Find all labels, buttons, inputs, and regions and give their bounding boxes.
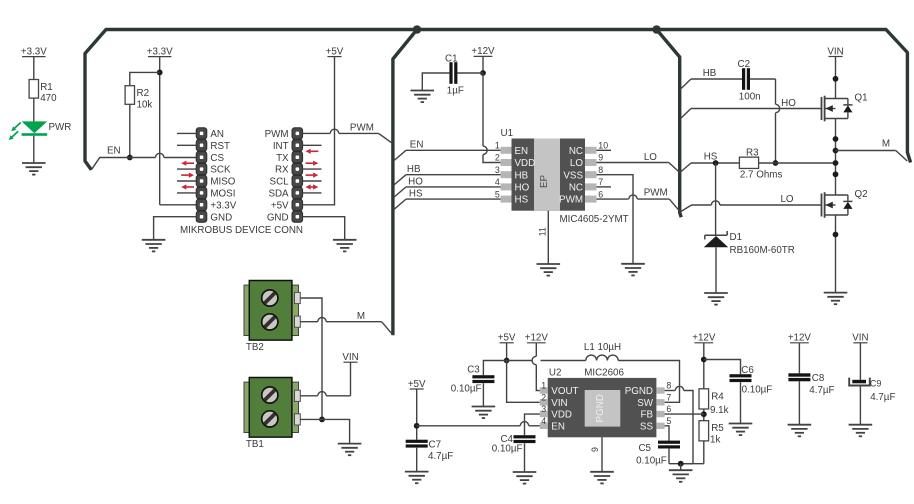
- svg-text:HB: HB: [703, 68, 717, 79]
- svg-text:LO: LO: [570, 158, 583, 169]
- svg-text:AN: AN: [210, 129, 224, 140]
- svg-text:C2: C2: [738, 59, 751, 70]
- svg-text:EN: EN: [107, 145, 121, 156]
- svg-text:D1: D1: [730, 232, 743, 243]
- svg-text:R1: R1: [40, 82, 53, 93]
- svg-text:MIKROBUS DEVICE CONN: MIKROBUS DEVICE CONN: [180, 225, 303, 236]
- svg-text:EN: EN: [515, 146, 529, 157]
- svg-text:PGND: PGND: [625, 386, 653, 397]
- svg-text:VIN: VIN: [551, 398, 567, 409]
- svg-text:PWM: PWM: [644, 188, 668, 199]
- svg-text:PWM: PWM: [265, 129, 289, 140]
- svg-text:HB: HB: [515, 170, 529, 181]
- svg-text:GND: GND: [210, 212, 232, 223]
- svg-text:RST: RST: [210, 141, 230, 152]
- svg-text:9: 9: [590, 447, 600, 452]
- svg-text:VIN: VIN: [342, 352, 358, 363]
- svg-text:C3: C3: [467, 364, 480, 375]
- svg-text:2: 2: [541, 392, 546, 402]
- svg-text:8: 8: [666, 381, 671, 391]
- svg-text:+5V: +5V: [326, 46, 344, 57]
- svg-text:RB160M-60TR: RB160M-60TR: [730, 245, 795, 256]
- svg-text:NC: NC: [569, 183, 583, 194]
- svg-text:VIN: VIN: [852, 333, 868, 344]
- svg-text:7: 7: [598, 177, 603, 187]
- svg-text:R5: R5: [711, 423, 724, 434]
- svg-text:0.10µF: 0.10µF: [451, 384, 482, 395]
- svg-text:VIN: VIN: [827, 46, 843, 57]
- svg-text:PWR: PWR: [49, 122, 72, 133]
- svg-text:Q1: Q1: [855, 93, 868, 104]
- svg-text:3: 3: [541, 404, 546, 414]
- svg-text:FB: FB: [640, 410, 653, 421]
- svg-text:INT: INT: [273, 141, 289, 152]
- svg-text:TB1: TB1: [246, 439, 264, 450]
- svg-text:LO: LO: [780, 194, 793, 205]
- svg-text:6: 6: [598, 189, 603, 199]
- svg-text:CS: CS: [210, 153, 224, 164]
- svg-text:4: 4: [495, 177, 500, 187]
- svg-text:C5: C5: [638, 443, 651, 454]
- svg-text:+12V: +12V: [471, 46, 495, 57]
- svg-text:RX: RX: [275, 165, 289, 176]
- svg-text:TB2: TB2: [246, 342, 264, 353]
- svg-text:6: 6: [666, 404, 671, 414]
- svg-text:1: 1: [541, 381, 546, 391]
- svg-text:R2: R2: [137, 88, 150, 99]
- svg-text:VOUT: VOUT: [551, 386, 578, 397]
- svg-text:EP: EP: [539, 175, 550, 189]
- svg-text:0.10µF: 0.10µF: [742, 384, 773, 395]
- svg-text:C7: C7: [429, 439, 442, 450]
- svg-text:9: 9: [598, 153, 603, 163]
- svg-text:MIC4605-2YMT: MIC4605-2YMT: [560, 214, 629, 225]
- svg-text:M: M: [357, 311, 365, 322]
- svg-text:PGND: PGND: [595, 394, 606, 422]
- svg-text:0.10µF: 0.10µF: [492, 444, 523, 455]
- svg-text:VDD: VDD: [515, 158, 536, 169]
- svg-text:EN: EN: [410, 140, 424, 151]
- svg-text:NC: NC: [569, 146, 583, 157]
- svg-text:5: 5: [666, 416, 671, 426]
- svg-text:VDD: VDD: [551, 410, 572, 421]
- svg-text:8: 8: [598, 165, 603, 175]
- svg-text:5: 5: [495, 189, 500, 199]
- svg-text:SW: SW: [637, 398, 654, 409]
- svg-text:R4: R4: [711, 391, 724, 402]
- svg-text:C8: C8: [812, 373, 825, 384]
- svg-text:4.7µF: 4.7µF: [428, 451, 453, 462]
- svg-text:2: 2: [495, 153, 500, 163]
- svg-text:C1: C1: [445, 53, 458, 64]
- svg-text:EN: EN: [551, 421, 565, 432]
- svg-text:R3: R3: [746, 147, 759, 158]
- svg-text:VSS: VSS: [563, 170, 583, 181]
- svg-text:7: 7: [666, 392, 671, 402]
- svg-text:+5V: +5V: [498, 333, 516, 344]
- svg-text:C9: C9: [870, 378, 882, 388]
- svg-text:+3.3V: +3.3V: [21, 46, 47, 57]
- svg-text:PWM: PWM: [350, 122, 374, 133]
- svg-text:+12V: +12V: [525, 333, 549, 344]
- svg-text:U1: U1: [501, 128, 514, 139]
- svg-text:100n: 100n: [739, 92, 761, 103]
- svg-text:4.7µF: 4.7µF: [870, 392, 895, 403]
- svg-text:10: 10: [598, 141, 608, 151]
- svg-text:U2: U2: [549, 368, 562, 379]
- svg-text:Q2: Q2: [855, 189, 868, 200]
- svg-text:TX: TX: [276, 153, 289, 164]
- svg-text:2.7 Ohms: 2.7 Ohms: [740, 170, 783, 181]
- svg-text:MOSI: MOSI: [210, 189, 235, 200]
- svg-text:10k: 10k: [137, 100, 153, 111]
- svg-text:+12V: +12V: [692, 333, 716, 344]
- svg-text:HO: HO: [408, 176, 423, 187]
- svg-text:HS: HS: [515, 195, 529, 206]
- svg-text:470: 470: [40, 93, 57, 104]
- svg-text:+5V: +5V: [408, 379, 426, 390]
- svg-text:9.1k: 9.1k: [710, 405, 729, 416]
- svg-text:SCK: SCK: [210, 165, 231, 176]
- svg-text:HB: HB: [407, 164, 421, 175]
- svg-text:HS: HS: [409, 189, 423, 200]
- svg-text:HO: HO: [781, 98, 796, 109]
- svg-text:PWM: PWM: [559, 195, 583, 206]
- svg-text:MISO: MISO: [210, 177, 235, 188]
- svg-text:1µF: 1µF: [447, 85, 464, 96]
- svg-text:4.7µF: 4.7µF: [809, 385, 834, 396]
- svg-text:+3.3V: +3.3V: [210, 200, 236, 211]
- svg-text:GND: GND: [267, 212, 289, 223]
- svg-text:C6: C6: [741, 365, 754, 376]
- svg-text:1: 1: [495, 141, 500, 151]
- svg-text:4: 4: [541, 416, 546, 426]
- svg-text:+5V: +5V: [271, 200, 289, 211]
- svg-text:+12V: +12V: [788, 333, 812, 344]
- svg-text:11: 11: [538, 227, 548, 236]
- svg-text:M: M: [882, 138, 890, 149]
- svg-text:1k: 1k: [710, 435, 720, 446]
- svg-text:0.10µF: 0.10µF: [636, 456, 667, 467]
- svg-text:SCL: SCL: [270, 177, 290, 188]
- svg-text:HO: HO: [515, 183, 530, 194]
- svg-text:SDA: SDA: [268, 189, 289, 200]
- svg-text:SS: SS: [640, 421, 654, 432]
- svg-text:MIC2606: MIC2606: [584, 368, 624, 379]
- svg-text:+3.3V: +3.3V: [147, 46, 173, 57]
- svg-text:L1 10µH: L1 10µH: [584, 342, 621, 353]
- svg-text:3: 3: [495, 165, 500, 175]
- svg-text:LO: LO: [644, 152, 657, 163]
